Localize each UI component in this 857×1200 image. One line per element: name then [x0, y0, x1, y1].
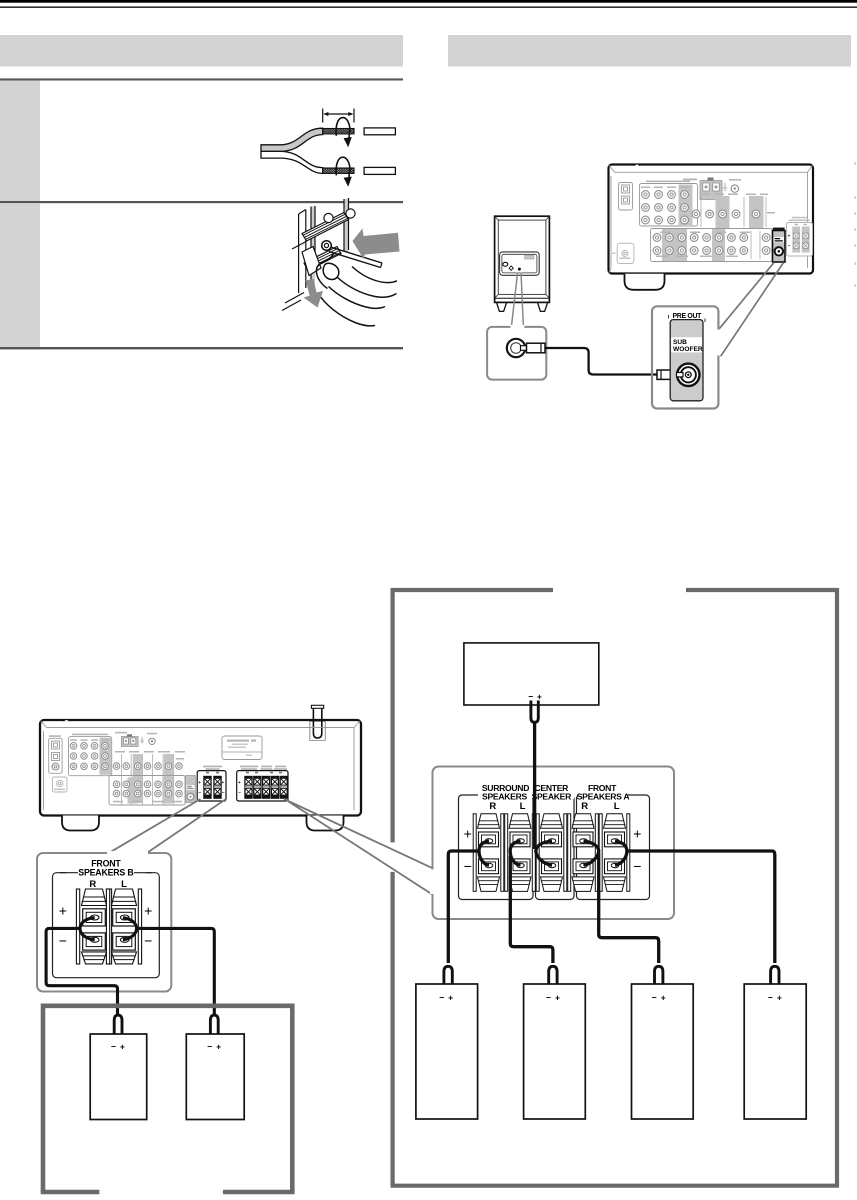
subwoofer connector panel	[500, 252, 540, 275]
callout box: FRONT SPEAKERS B terminals	[37, 851, 171, 992]
svg-text:−: −	[59, 933, 67, 949]
figure: pressing speaker terminal tab and inserting wire	[282, 198, 400, 326]
SUB WOOFER PRE OUT jack block	[773, 228, 786, 262]
white tab wedge	[302, 247, 321, 276]
svg-text:SPEAKERS B: SPEAKERS B	[78, 867, 133, 877]
center speaker (box)	[464, 643, 599, 705]
svg-text:−: −	[652, 992, 657, 1002]
svg-text:+: +	[144, 903, 152, 919]
page top black bar	[0, 0, 857, 8]
diagram: front speakers B connection (left)	[37, 705, 433, 1192]
receiver foot	[625, 274, 665, 290]
speaker terminal panel (callout box)	[430, 767, 674, 920]
panel labels	[478, 782, 533, 799]
FRONT SPEAKERS B terminal block (gray)	[787, 217, 813, 256]
svg-text:L: L	[614, 801, 620, 812]
svg-text:−: −	[111, 1041, 116, 1051]
svg-text:−: −	[633, 858, 641, 874]
terminal columns	[473, 814, 504, 892]
left table rule 3	[0, 347, 403, 349]
stripped wire end (lower)	[323, 168, 354, 173]
receiver outline	[40, 720, 361, 816]
diagram: surround / center / front A speakers (right)	[391, 588, 840, 1186]
svg-text:−: −	[198, 790, 201, 795]
svg-text:+: +	[777, 992, 782, 1002]
subwoofer pre out jack (large)	[677, 364, 699, 386]
wire: surround right	[444, 841, 489, 991]
surround speaker left (box)	[524, 984, 586, 1119]
right section header bar	[448, 35, 851, 67]
bottom RCA grid (10 x 2)	[651, 229, 773, 262]
label box (upper)	[364, 128, 395, 135]
power cord slot outline	[310, 722, 326, 740]
svg-text:−: −	[464, 858, 472, 874]
svg-text:−: −	[207, 1041, 212, 1051]
callout leader lines from receiver sub woofer jack	[719, 263, 783, 357]
left table rule 2	[0, 201, 403, 203]
svg-text:R: R	[489, 801, 496, 812]
svg-text:+: +	[222, 780, 225, 785]
hand / finger	[316, 253, 397, 326]
twist arrow (lower)	[336, 157, 352, 187]
callout box: PRE OUT SUB WOOFER	[652, 306, 721, 408]
RCA input grid (4 x 3)	[69, 734, 112, 776]
svg-text:+: +	[59, 903, 67, 919]
svg-text:SUB: SUB	[673, 339, 687, 346]
svg-text:+: +	[216, 1041, 221, 1051]
svg-text:−: −	[788, 243, 791, 248]
front speaker A left (box)	[744, 984, 806, 1119]
top notch	[64, 720, 70, 722]
gray push arrow (toward terminal)	[353, 229, 400, 260]
svg-text:−: −	[222, 790, 225, 795]
left section header bar	[0, 35, 403, 67]
svg-text:R: R	[581, 801, 588, 812]
dimension line 10mm	[323, 109, 354, 123]
svg-text:+: +	[788, 233, 791, 238]
wire: center	[531, 701, 552, 866]
svg-text:R: R	[89, 879, 96, 890]
speaker impedance selector	[612, 243, 634, 263]
callout leader lines to right speaker panel	[284, 799, 433, 895]
room outline (right)	[391, 588, 840, 1186]
terminal hole lower (wire inserted)	[322, 241, 332, 251]
AM antenna terminal block	[700, 178, 722, 200]
svg-text:−: −	[768, 992, 773, 1002]
lower clamp hatched band	[304, 247, 341, 271]
page edge marks (right margin)	[855, 162, 857, 287]
voltage selector	[53, 777, 68, 792]
terminal panel (isometric)	[282, 198, 355, 311]
gray release arrow (downward)	[304, 279, 324, 308]
cord lower conductor (white)	[261, 151, 323, 173]
callout leader lines to FRONT SPEAKERS B box	[109, 799, 227, 853]
middle jack columns	[113, 751, 185, 805]
diagram: connecting a powered subwoofer	[487, 164, 813, 409]
inner box: front speakers A	[577, 795, 650, 900]
label box (lower)	[364, 167, 395, 174]
terminal R	[76, 889, 111, 964]
speaker wire: front B left	[123, 918, 218, 1040]
subwoofer rear (active subwoofer)	[495, 216, 550, 311]
left table step cell 2	[0, 203, 40, 347]
svg-text:+: +	[633, 826, 641, 842]
digital in box	[49, 735, 62, 773]
wire: front A left	[615, 841, 779, 991]
terminal L	[106, 889, 141, 964]
svg-text:L: L	[520, 801, 526, 812]
svg-text:SPEAKER: SPEAKER	[532, 792, 573, 802]
front speaker B left (box)	[186, 1034, 244, 1120]
svg-text:−: −	[238, 790, 241, 795]
inner box: surround speakers	[459, 795, 534, 900]
front speaker B right (box)	[90, 1034, 147, 1120]
upper clamp hatched band	[302, 213, 349, 242]
mono audio cable with RCA plugs	[521, 343, 683, 379]
receiver outline	[609, 165, 814, 274]
callout box: subwoofer input jack	[487, 325, 546, 380]
input jack	[507, 339, 525, 357]
SURROUND / CENTER / FRONT A terminal block (black)	[237, 766, 288, 801]
ANTENNA label	[683, 179, 697, 181]
figure: speaker cord strip-and-twist	[261, 109, 395, 187]
ac power cord	[310, 705, 326, 740]
room outline (left)	[41, 1006, 295, 1192]
wire: surround left	[510, 841, 557, 991]
subwoofer feet	[497, 303, 507, 312]
svg-text:WOOFER: WOOFER	[673, 346, 703, 353]
speaker wire rod	[329, 247, 382, 268]
FM 75 ohm coaxial jack	[729, 179, 741, 192]
receiver rear panel (top right)	[609, 164, 814, 290]
svg-text:+: +	[120, 1041, 125, 1051]
ground mark	[723, 183, 728, 190]
svg-text:−: −	[144, 933, 152, 949]
digital in box	[619, 183, 633, 211]
svg-text:−: −	[439, 992, 444, 1002]
top notch	[634, 164, 640, 166]
twist arrow (upper)	[336, 118, 352, 148]
FRONT SPEAKERS B terminal block (black)	[197, 766, 226, 801]
svg-text:+: +	[198, 780, 201, 785]
svg-text:+: +	[537, 692, 542, 702]
sub woofer pre out block (small)	[186, 776, 196, 803]
callout leader lines from subwoofer jack	[511, 273, 523, 327]
SONY model label box	[222, 736, 262, 760]
left table step cell 1	[0, 81, 40, 202]
inner box: center speaker	[536, 795, 575, 900]
bottom RCA grid (2 rows)	[109, 776, 185, 806]
svg-text:L: L	[121, 879, 127, 890]
receiver feet	[62, 816, 99, 831]
svg-text:+: +	[555, 992, 560, 1002]
svg-text:−: −	[546, 992, 551, 1002]
terminal hole upper	[324, 213, 333, 222]
receiver rear panel (bottom left)	[40, 705, 361, 830]
left table rule 1	[0, 78, 403, 80]
wire: front A right	[584, 841, 663, 991]
receiver inner bevel lines	[609, 165, 813, 273]
svg-text:PRE OUT: PRE OUT	[673, 313, 703, 320]
svg-text:+: +	[238, 780, 241, 785]
svg-text:+: +	[448, 992, 453, 1002]
svg-text:+: +	[661, 992, 666, 1002]
svg-text:+: +	[464, 826, 472, 842]
surround speaker right (box)	[416, 984, 478, 1119]
speaker wire: front B right	[46, 918, 122, 1040]
svg-text:−: −	[528, 692, 533, 702]
stripped wire end (upper)	[323, 129, 354, 134]
middle jack row	[692, 194, 775, 229]
AM antenna terminal block	[115, 732, 157, 747]
cord upper conductor (insulated, gray)	[261, 128, 323, 151]
RCA input grid (4 x 3)	[640, 181, 698, 227]
front speaker A right (box)	[632, 984, 694, 1119]
